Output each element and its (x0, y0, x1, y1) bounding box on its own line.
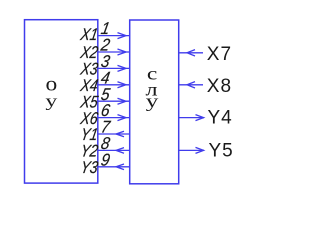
wire 1 X1 (98, 35, 130, 37)
wire 6 X6 (98, 117, 130, 119)
arrowhead X8 (187, 82, 195, 88)
pin number 5 (99, 85, 112, 104)
block OU (left box) (25, 20, 98, 183)
wire 4 X4 (98, 84, 130, 86)
label Y1 (79, 126, 99, 144)
svg-text:Y5: Y5 (209, 141, 234, 162)
svg-text:X1: X1 (78, 26, 99, 44)
label X5 (78, 93, 99, 111)
label Y3 (79, 159, 100, 177)
wire 2 X2 (98, 51, 130, 53)
wire 9 Y3 (98, 166, 130, 168)
svg-text:Y4: Y4 (208, 107, 233, 128)
arrowhead wire 6 (118, 115, 127, 121)
arrowhead wire 7 (116, 131, 124, 137)
wire 8 Y2 (98, 149, 130, 151)
pin number 9 (99, 151, 111, 170)
arrowhead wire 2 (118, 49, 127, 55)
label X2 (78, 44, 99, 62)
svg-text:у: у (45, 93, 58, 111)
arrowhead Y4 (196, 115, 204, 121)
arrowhead wire 1 (118, 33, 127, 39)
label Y2 (79, 143, 100, 161)
wire 5 X5 (98, 100, 130, 102)
arrowhead wire 8 (116, 148, 124, 154)
arrowhead wire 9 (116, 164, 124, 170)
pin number 1 (99, 20, 111, 39)
wire Y5 (output to right) (179, 149, 204, 151)
svg-text:у: у (146, 90, 159, 111)
wire 3 X3 (98, 67, 130, 69)
arrowhead wire 3 (118, 65, 127, 71)
label X3 (78, 61, 99, 79)
label X6 (78, 110, 99, 128)
arrowhead wire 4 (118, 82, 127, 88)
label X4 (78, 77, 99, 95)
pin number 2 (99, 36, 112, 55)
pin number 7 (99, 118, 112, 137)
svg-text:Y3: Y3 (79, 159, 100, 177)
wire X7 (input from right) (179, 52, 203, 54)
svg-text:X8: X8 (207, 76, 232, 97)
pin number 4 (99, 69, 111, 88)
arrowhead X7 (187, 50, 195, 56)
arrowhead Y5 (196, 147, 204, 153)
wire Y4 (output to right) (179, 117, 204, 119)
arrowhead wire 5 (118, 98, 127, 104)
block SLU (right box) (130, 20, 179, 184)
svg-text:X7: X7 (207, 44, 232, 65)
pin number 6 (99, 102, 112, 121)
pin number 3 (99, 52, 111, 71)
wire 7 Y1 (98, 133, 130, 135)
label X1 (78, 26, 99, 44)
wire X8 (input from right) (179, 84, 203, 86)
pin number 8 (99, 134, 111, 153)
